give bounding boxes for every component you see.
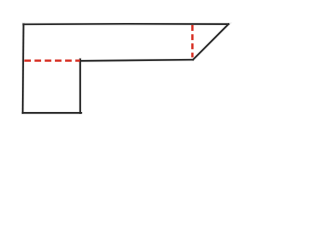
wire top edge A-B bbox=[24, 23, 229, 26]
red dashed divider horizontal bbox=[24, 59, 80, 61]
red dashed divider vertical bbox=[191, 25, 193, 57]
wire square bottom edge E-F bbox=[23, 112, 82, 114]
scan fuzz under-strokes bbox=[23, 24, 229, 113]
composite geometric figure: rectangle strip + right triangle + square, with red dashed dividers bbox=[0, 0, 260, 132]
wire left edge F-A bbox=[22, 24, 25, 113]
wire strip bottom edge C-D bbox=[80, 60, 193, 61]
wire square right edge D-E bbox=[79, 59, 81, 113]
wire diagonal edge B-C bbox=[193, 24, 229, 60]
